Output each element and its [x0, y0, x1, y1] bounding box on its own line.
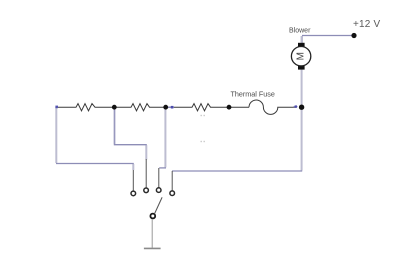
svg-text:Blower: Blower	[289, 27, 311, 34]
svg-text:Thermal Fuse: Thermal Fuse	[231, 89, 275, 98]
svg-text:+12 V: +12 V	[353, 19, 381, 30]
svg-text:M: M	[296, 52, 307, 60]
